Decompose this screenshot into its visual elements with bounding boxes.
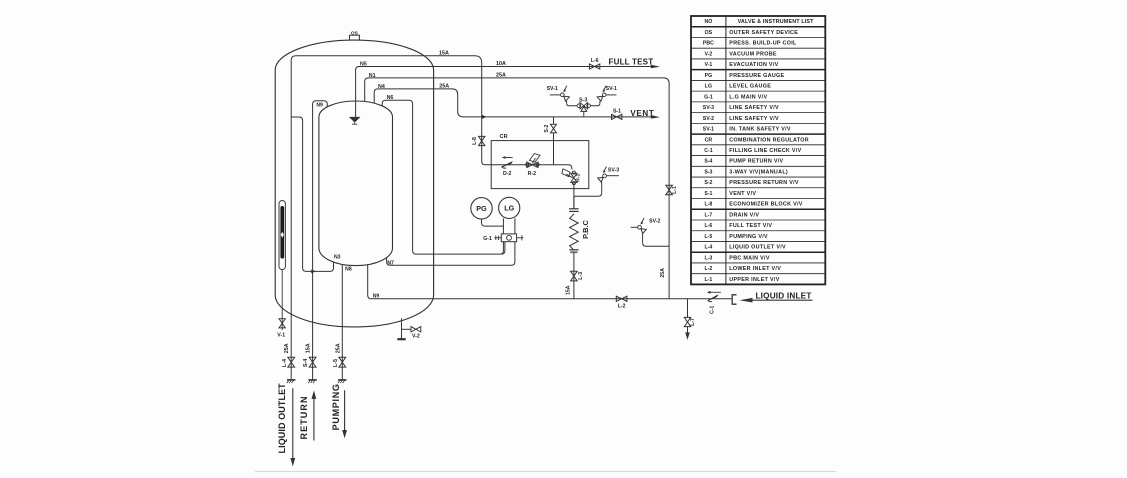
D-2 flow arrow	[505, 157, 513, 159]
3-way valve S-3	[577, 103, 590, 117]
valve & instrument list table	[691, 16, 825, 284]
svg-text:N3: N3	[334, 255, 341, 261]
svg-text:OUTER SAFETY DEVICE: OUTER SAFETY DEVICE	[729, 30, 798, 36]
PBC top ticks	[569, 208, 578, 210]
check valve D-2	[502, 162, 512, 168]
svg-text:25A: 25A	[496, 73, 506, 79]
full test arrowhead	[651, 65, 660, 69]
level gauge LG	[499, 197, 520, 218]
flange L-4	[287, 379, 295, 381]
svg-text:S-2: S-2	[544, 124, 550, 132]
svg-text:NO: NO	[705, 19, 713, 25]
pipe V-2 capsule to V-1	[281, 270, 283, 330]
svg-text:SV-2: SV-2	[649, 218, 660, 224]
svg-text:COMBINATION REGULATOR: COMBINATION REGULATOR	[729, 137, 809, 143]
valve S-2 pressure return branch	[553, 117, 555, 124]
svg-text:R-2: R-2	[528, 171, 536, 177]
pipe L-5 pumping drop (N8)	[341, 264, 343, 379]
PBC zigzag	[570, 214, 579, 250]
safety valve SV-2	[631, 218, 670, 246]
svg-text:L-4: L-4	[282, 359, 288, 367]
svg-text:SV-1: SV-1	[606, 86, 617, 92]
svg-text:L-5: L-5	[705, 234, 713, 240]
svg-text:CR: CR	[705, 137, 713, 143]
svg-text:OS: OS	[705, 30, 713, 36]
G-1 lower left tube to y254 (already drawn via N6)	[501, 242, 505, 254]
valve V-2 branch	[402, 328, 412, 330]
pipe N9 drop to bottom main	[368, 264, 732, 298]
svg-text:L-1: L-1	[672, 186, 678, 194]
svg-text:S-2: S-2	[704, 180, 712, 186]
svg-text:SV-3: SV-3	[608, 168, 619, 174]
svg-text:L.G MAIN V/V: L.G MAIN V/V	[729, 94, 767, 100]
return arrow	[313, 398, 315, 441]
svg-text:S-4: S-4	[704, 159, 712, 165]
svg-text:LIQUID OUTLET: LIQUID OUTLET	[277, 383, 287, 454]
pipe end flange bracket	[732, 295, 736, 304]
svg-text:LG: LG	[504, 204, 514, 213]
svg-text:VALVE & INSTRUMENT LIST: VALVE & INSTRUMENT LIST	[738, 19, 815, 25]
vacuum probe V-2 capsule	[279, 201, 285, 270]
svg-text:VACUUM PROBE: VACUUM PROBE	[729, 51, 777, 57]
safety valve SV-1 right	[590, 86, 616, 106]
safety valve SV-3	[574, 167, 619, 197]
svg-text:L-8: L-8	[705, 202, 713, 208]
svg-text:PRESSURE GAUGE: PRESSURE GAUGE	[729, 73, 784, 79]
valve L-6 full test	[589, 64, 599, 69]
svg-text:10A: 10A	[496, 61, 506, 67]
svg-text:N6: N6	[387, 95, 394, 101]
svg-text:L-6: L-6	[591, 58, 599, 64]
svg-text:N8: N8	[345, 266, 352, 272]
svg-text:N9: N9	[373, 293, 380, 299]
pipe PBC to bottom main	[573, 252, 575, 299]
svg-text:N5: N5	[360, 61, 367, 67]
svg-text:25A: 25A	[660, 268, 666, 278]
svg-text:L-2: L-2	[618, 304, 626, 310]
valve S-1 vent	[612, 114, 622, 119]
svg-text:FILLING LINE CHECK V/V: FILLING LINE CHECK V/V	[729, 148, 801, 154]
pipe N4 / 25A vent feed	[374, 89, 652, 117]
valve L-1 upper inlet	[666, 185, 673, 195]
flange S-4	[308, 379, 316, 381]
svg-text:PBC: PBC	[703, 41, 714, 47]
svg-text:V-2: V-2	[412, 334, 420, 340]
LG right tube	[514, 218, 516, 234]
CR box	[491, 141, 589, 189]
pipe R-1 down to PBC	[573, 183, 575, 208]
svg-text:PRESSURE RETURN V/V: PRESSURE RETURN V/V	[729, 180, 799, 186]
svg-text:PBC MAIN V/V: PBC MAIN V/V	[729, 255, 770, 261]
svg-text:G-1: G-1	[704, 94, 713, 100]
valve L-8 economizer	[479, 136, 485, 145]
svg-text:N9: N9	[316, 103, 323, 109]
pipe S-4 return drop	[312, 271, 314, 379]
svg-text:L-6: L-6	[705, 223, 713, 229]
G-1 right stem	[517, 237, 524, 239]
svg-text:VENT V/V: VENT V/V	[729, 191, 756, 197]
svg-text:PG: PG	[476, 204, 487, 213]
svg-text:LIQUID INLET: LIQUID INLET	[755, 291, 811, 300]
svg-text:SV-3: SV-3	[703, 105, 714, 111]
svg-text:3-WAY V/V(MANUAL): 3-WAY V/V(MANUAL)	[729, 169, 788, 175]
check valve C-1	[708, 295, 717, 301]
svg-text:SV-1: SV-1	[547, 86, 558, 92]
svg-text:L-1: L-1	[705, 277, 713, 283]
svg-text:FULL TEST V/V: FULL TEST V/V	[729, 223, 772, 229]
svg-text:C-1: C-1	[704, 148, 712, 154]
svg-text:SV-1: SV-1	[703, 127, 714, 133]
liquid outlet arrow	[292, 388, 294, 459]
svg-text:ECONOMIZER BLOCK V/V: ECONOMIZER BLOCK V/V	[729, 202, 802, 208]
svg-text:LEVEL GAUGE: LEVEL GAUGE	[729, 84, 771, 90]
valve S-4	[309, 357, 316, 367]
svg-text:L-2: L-2	[705, 266, 713, 272]
svg-text:15A: 15A	[439, 50, 449, 56]
PBC coil line	[573, 196, 575, 209]
pressure gauge PG	[471, 198, 492, 219]
svg-text:LG: LG	[705, 84, 712, 90]
svg-text:PG: PG	[705, 73, 713, 79]
svg-text:DRAIN V/V: DRAIN V/V	[729, 212, 759, 218]
svg-text:S-4: S-4	[303, 359, 309, 367]
svg-text:15A: 15A	[566, 285, 572, 295]
pipe N1 / 25A to liquid inlet drop	[365, 78, 669, 299]
outer tank shell	[275, 40, 433, 327]
pipe N9 hook (inner tank top to annulus)	[313, 101, 328, 272]
svg-text:N7: N7	[387, 261, 394, 267]
pumping arrow	[344, 390, 346, 431]
vent arrowhead	[651, 115, 660, 119]
svg-text:L-3: L-3	[705, 255, 713, 261]
valve L-5	[339, 357, 346, 367]
svg-text:LINE SAFETY V/V: LINE SAFETY V/V	[729, 116, 779, 122]
svg-text:OS: OS	[351, 30, 359, 36]
svg-text:SV-2: SV-2	[703, 116, 714, 122]
pipe L-4 liquid outlet drop	[290, 120, 292, 380]
valve L-2 lower inlet	[616, 296, 627, 301]
svg-text:G-1: G-1	[483, 236, 492, 242]
svg-text:S-3: S-3	[579, 98, 587, 104]
LG left tube	[502, 218, 504, 234]
svg-text:IN. TANK SAFETY V/V: IN. TANK SAFETY V/V	[729, 127, 791, 133]
svg-text:EVACUATION V/V: EVACUATION V/V	[729, 62, 778, 68]
pipe N6 level gauge upper tap	[382, 100, 503, 254]
svg-text:LINE SAFETY V/V: LINE SAFETY V/V	[729, 105, 779, 111]
LIQUID INLET arrow line	[746, 299, 813, 301]
safety valve SV-1 left	[550, 86, 577, 106]
valve V-1 evacuation	[279, 319, 285, 328]
svg-text:L-7: L-7	[690, 318, 696, 326]
evacuation port with cap	[401, 318, 403, 338]
inner tank vessel	[319, 101, 393, 266]
pipe N7 lower tap	[387, 242, 515, 266]
svg-text:UPPER INLET V/V: UPPER INLET V/V	[729, 277, 779, 283]
svg-text:RETURN: RETURN	[299, 395, 309, 439]
OS outer safety device	[350, 30, 360, 40]
svg-text:25A: 25A	[439, 83, 449, 89]
faint footer rule	[255, 471, 836, 473]
svg-text:C-1: C-1	[710, 306, 716, 314]
svg-text:V-2: V-2	[705, 51, 713, 57]
svg-text:PRESS. BUILD-UP COIL: PRESS. BUILD-UP COIL	[729, 41, 797, 47]
valve L-7 drain branch	[687, 299, 689, 318]
pipe 15A (N_ top left elbow to right)	[291, 56, 482, 120]
G-1 left stem	[494, 237, 501, 239]
svg-text:L-3: L-3	[578, 272, 584, 280]
branch 15A-line to S-4 drop	[291, 117, 333, 271]
valve L-4	[288, 357, 295, 367]
svg-text:15A: 15A	[306, 343, 312, 353]
svg-text:N1: N1	[369, 73, 376, 79]
sparge fill diffuser	[349, 117, 361, 123]
svg-text:PUMPING: PUMPING	[331, 383, 341, 430]
svg-text:LIQUID OUTLET V/V: LIQUID OUTLET V/V	[729, 245, 786, 251]
svg-text:V-1: V-1	[705, 62, 713, 68]
svg-text:R-1: R-1	[575, 174, 581, 182]
svg-text:V-1: V-1	[277, 333, 285, 339]
svg-text:L-8: L-8	[472, 137, 478, 145]
flange L-5	[338, 379, 346, 381]
regulator R-2	[526, 154, 540, 168]
svg-text:S-1: S-1	[613, 109, 621, 115]
svg-text:L-7: L-7	[705, 212, 713, 218]
PG sensing line	[482, 219, 504, 226]
svg-text:25A: 25A	[335, 343, 341, 353]
junction arrow on vent line	[482, 115, 487, 119]
svg-text:PUMP RETURN V/V: PUMP RETURN V/V	[729, 159, 783, 165]
svg-text:FULL TEST: FULL TEST	[609, 58, 654, 67]
svg-text:N4: N4	[378, 84, 385, 90]
PBC bottom ticks	[569, 249, 578, 251]
valve L-3 pbc main	[571, 271, 578, 281]
svg-text:L-5: L-5	[333, 359, 339, 367]
svg-text:LOWER INLET V/V: LOWER INLET V/V	[729, 266, 781, 272]
regulator R-1	[562, 169, 577, 185]
G-1 gauge block	[501, 234, 516, 242]
svg-text:PUMPING V/V: PUMPING V/V	[729, 234, 768, 240]
pipe N5 / 10A full test line	[356, 67, 653, 117]
svg-text:L-4: L-4	[705, 245, 713, 251]
pipe L-8 drop from 15A through CR	[482, 63, 572, 170]
svg-text:25A: 25A	[284, 343, 290, 353]
svg-text:CR: CR	[500, 134, 508, 140]
C-1 flow arrow	[710, 291, 721, 293]
svg-text:P.B.C: P.B.C	[581, 219, 590, 238]
svg-text:S-1: S-1	[704, 191, 712, 197]
svg-text:S-3: S-3	[704, 169, 712, 175]
annulus flow arrow	[311, 269, 316, 273]
svg-text:D-2: D-2	[503, 171, 511, 177]
